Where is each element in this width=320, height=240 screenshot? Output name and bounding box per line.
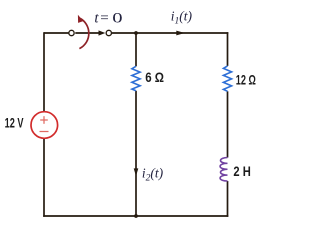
- node top (junction dot): [134, 31, 138, 35]
- svg-text:6 Ω: 6 Ω: [145, 69, 164, 85]
- switch terminal circle right: [106, 30, 111, 35]
- wire left lower: [43, 138, 45, 217]
- inductor L1 2 H: [220, 158, 227, 182]
- voltage source V1 (12 V): [31, 112, 58, 139]
- switch action arc (red, t=0): [78, 15, 89, 49]
- wire middle upper: [135, 33, 137, 66]
- svg-text:12 V: 12 V: [5, 117, 24, 131]
- wire bottom: [43, 215, 228, 217]
- switch terminal circle left: [69, 30, 74, 35]
- wire switch to node: [112, 32, 136, 34]
- wire top-left segment: [44, 32, 69, 34]
- resistor R2 12 ohm: [223, 66, 231, 91]
- current arrow i1 on top wire: [176, 31, 185, 36]
- wire middle lower: [135, 91, 137, 216]
- current arrow i2 on middle wire: [134, 168, 139, 176]
- svg-text:12 Ω: 12 Ω: [236, 74, 256, 88]
- wire right middle: [227, 91, 229, 157]
- wire right upper: [227, 32, 229, 66]
- wire right lower: [227, 181, 229, 217]
- node bottom (junction dot): [134, 214, 138, 218]
- resistor R1 6 ohm: [132, 66, 140, 91]
- wire top-right segment: [136, 32, 228, 34]
- wire left upper: [43, 32, 45, 112]
- switch blade arrow: [75, 30, 105, 35]
- svg-text:0: 0: [112, 9, 122, 26]
- svg-text:2 H: 2 H: [233, 164, 250, 179]
- svg-text:=: =: [100, 11, 108, 27]
